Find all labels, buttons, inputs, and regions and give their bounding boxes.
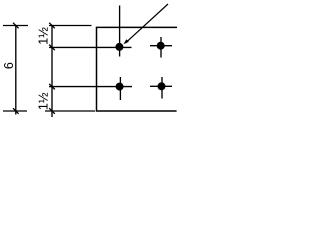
tick D1 bottom: [13, 108, 19, 114]
centerline BR horizontal: [150, 85, 172, 87]
svg-text:6: 6: [2, 62, 16, 69]
svg-text:1½: 1½: [36, 27, 51, 45]
tick D2 row2: [49, 84, 55, 90]
centerline TR vertical: [160, 37, 162, 58]
extension line D1 top: [3, 25, 28, 27]
centerline TR horizontal: [150, 45, 172, 47]
centerline BL vertical: [119, 77, 121, 100]
extension line D2 bottom: [45, 110, 95, 112]
tick D1 top: [13, 23, 19, 29]
dimension line D1 (6): [15, 26, 17, 115]
bolt hole TL: [115, 43, 123, 51]
bolt hole BR: [158, 82, 166, 90]
centerline BR vertical: [161, 77, 163, 99]
bolt hole TR: [157, 42, 165, 50]
tick D2 top: [49, 23, 55, 29]
plate outline (open right side): [97, 27, 178, 111]
centerline TL vertical: [119, 6, 121, 57]
svg-text:1½: 1½: [36, 92, 51, 110]
bolt hole BL: [116, 83, 124, 91]
tick D2 bottom: [49, 108, 55, 114]
extension line D1 bottom: [3, 110, 27, 112]
dimension line D2: [51, 26, 53, 118]
leader arrowhead: [123, 39, 128, 44]
gauge line row 1: [49, 46, 132, 48]
extension line D2 top: [49, 25, 92, 27]
tick D2 row1: [49, 45, 55, 51]
gauge line row 2: [49, 86, 132, 88]
leader line: [126, 4, 169, 43]
